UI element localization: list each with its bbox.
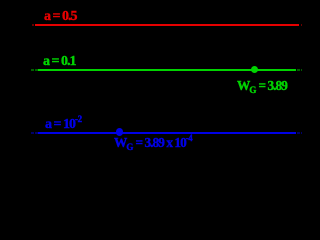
curve line a=0.1 (green), faint right dashes	[297, 69, 300, 71]
label W_G = 3.89 x 10^-4 (blue)	[114, 137, 192, 151]
data point marker on green line	[251, 66, 258, 73]
data point marker on blue line	[116, 128, 123, 135]
label W_G = 3.89 (green)	[237, 80, 287, 94]
curve line a=0.1 (green), faint left dashes	[31, 69, 34, 71]
curve line a=10^-2 (blue), solid segment	[38, 132, 296, 134]
curve line a=0.5 (red), solid segment	[35, 24, 299, 26]
label a = 10^-2 (blue)	[45, 118, 82, 132]
curve line a=10^-2 (blue), faint right dashes	[297, 132, 300, 134]
curve line a=0.5 (red), faint right tail	[301, 24, 303, 26]
curve line a=0.5 (red), faint left start	[32, 24, 34, 26]
curve line a=0.1 (green), solid segment	[38, 69, 296, 71]
label a = 0.1 (green)	[43, 55, 75, 69]
label a = 0.5 (red)	[44, 10, 76, 24]
curve line a=10^-2 (blue), faint left dashes	[31, 132, 34, 134]
